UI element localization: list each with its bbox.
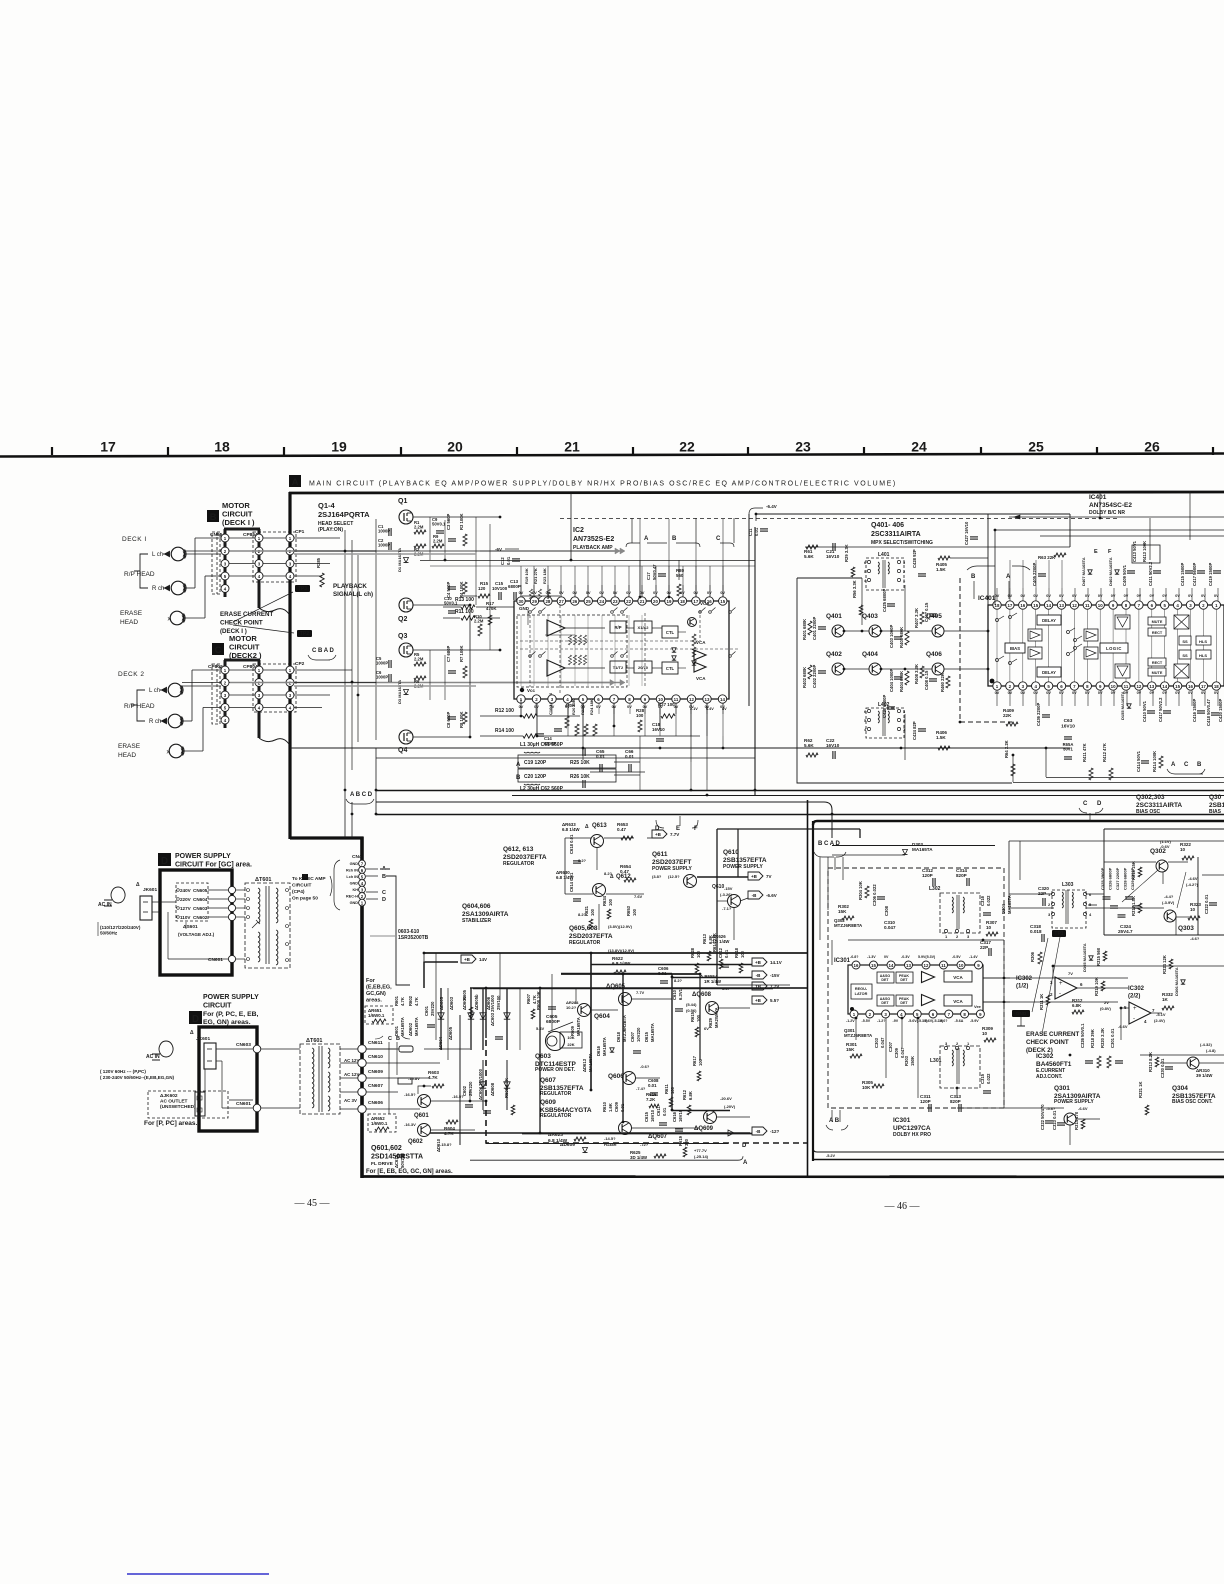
svg-text:100: 100 <box>740 950 745 958</box>
tag -B -12V <box>752 1127 767 1135</box>
bracket R/P head deck2 <box>131 690 145 721</box>
wires deck2 heads to connectors <box>182 682 221 684</box>
svg-text:REC-H: REC-H <box>346 895 358 899</box>
svg-text:R21 27K: R21 27K <box>533 568 538 584</box>
svg-text:(5.44): (5.44) <box>686 1002 697 1007</box>
svg-text:CN610: CN610 <box>368 1054 383 1060</box>
svg-text:5.9V(5.3V): 5.9V(5.3V) <box>918 955 936 959</box>
wire CN4 to page46 <box>386 876 410 985</box>
wires q304 <box>1140 1054 1224 1056</box>
svg-text:Vcc: Vcc <box>527 688 536 693</box>
transistor Q301 <box>1064 1113 1076 1125</box>
svg-text:R402 680K: R402 680K <box>802 667 807 688</box>
svg-text:Δ: Δ <box>190 1030 194 1036</box>
svg-text:0V: 0V <box>1072 594 1077 598</box>
svg-text:(-3.26): (-3.26) <box>720 892 732 897</box>
svg-text:C616: C616 <box>672 1111 677 1122</box>
svg-text:ΔJK602: ΔJK602 <box>160 1093 178 1099</box>
deck2 R-ch head <box>168 714 182 728</box>
svg-text:L302: L302 <box>929 886 941 892</box>
svg-text:CN4: CN4 <box>352 854 362 860</box>
svg-text:2SJ164PQRTA: 2SJ164PQRTA <box>318 510 370 519</box>
main circuit border bottom page45 <box>362 1175 1224 1178</box>
svg-text:17: 17 <box>100 439 116 455</box>
IC301 VCA lower <box>944 995 972 1006</box>
svg-text:CN604: CN604 <box>193 897 208 902</box>
svg-text:DELAY: DELAY <box>1042 670 1056 675</box>
tag +B 14.1V <box>752 958 767 966</box>
svg-text:Q301: Q301 <box>1054 1085 1070 1092</box>
svg-text:R403 680K: R403 680K <box>899 627 904 648</box>
op-amp IC301 box <box>848 965 983 1014</box>
diode D607 D608 lower <box>482 1060 484 1110</box>
svg-text:Q1-4: Q1-4 <box>318 501 336 510</box>
MPX wires <box>805 546 1070 548</box>
svg-text:-5.8?: -5.8? <box>1046 1106 1056 1111</box>
svg-text:D618: D618 <box>616 1031 621 1042</box>
transistor Q608 <box>706 1002 719 1015</box>
svg-text:21: 21 <box>564 439 580 455</box>
svg-text:CN601: CN601 <box>208 957 223 963</box>
svg-text:Q607: Q607 <box>540 1077 556 1084</box>
wires below IC401 <box>997 690 1218 706</box>
svg-text:0.047: 0.047 <box>884 925 896 930</box>
svg-text:R605: R605 <box>462 989 467 1000</box>
svg-text:C316: C316 <box>980 895 985 906</box>
svg-text:Q401- 406: Q401- 406 <box>871 522 904 529</box>
svg-text:C: C <box>388 1036 392 1042</box>
svg-text:REGULATOR: REGULATOR <box>540 1091 572 1097</box>
bold vertical c <box>671 974 673 1110</box>
wire bus y758 <box>376 757 755 759</box>
power supply P/PC label D <box>189 1011 202 1024</box>
svg-text:GND: GND <box>350 901 359 905</box>
test point TP1 <box>1052 930 1066 937</box>
deck2 L-ch head <box>168 683 182 697</box>
svg-text:Q604,606: Q604,606 <box>462 903 491 910</box>
svg-text:(2/2): (2/2) <box>1128 994 1140 1000</box>
svg-text:CN606: CN606 <box>368 1100 383 1106</box>
page46 box left <box>812 821 814 1161</box>
svg-text:-1.4V: -1.4V <box>969 955 978 959</box>
transistor Q601 <box>418 1095 431 1108</box>
svg-text:7.2K: 7.2K <box>646 1097 656 1102</box>
svg-text:CN609: CN609 <box>368 1069 383 1075</box>
svg-text:CIRCUIT: CIRCUIT <box>292 883 312 889</box>
svg-text:D3 MA165TA: D3 MA165TA <box>397 680 402 704</box>
svg-text:CN602: CN602 <box>193 915 208 920</box>
svg-text:C428 92P: C428 92P <box>912 549 917 568</box>
svg-text:0V: 0V <box>1175 594 1180 598</box>
bold frame right psu <box>773 987 807 989</box>
wires q610 <box>717 900 728 902</box>
wire bus y814 <box>376 814 1224 816</box>
svg-text:C308: C308 <box>884 905 889 916</box>
svg-text:C326 50V0.1: C326 50V0.1 <box>1080 1023 1085 1048</box>
svg-text:MPX SELECT/SWITCHING: MPX SELECT/SWITCHING <box>871 540 933 546</box>
svg-text:L401: L401 <box>878 552 890 558</box>
svg-text:0V: 0V <box>1149 594 1154 598</box>
filter box C19 R25 <box>518 755 616 768</box>
deck1 R-ch head <box>171 581 185 595</box>
svg-text:BA4560FT1: BA4560FT1 <box>1036 1061 1072 1068</box>
svg-text:POWER SUPPLY: POWER SUPPLY <box>1054 1099 1094 1105</box>
diode D605c <box>482 988 484 1050</box>
bold rail 14.1V <box>591 964 752 966</box>
svg-text:Q3: Q3 <box>398 633 407 640</box>
IC2 internal Vcc <box>520 688 524 692</box>
svg-text:K: K <box>303 874 307 880</box>
transformer L401 <box>864 552 906 590</box>
svg-text:(-4.32): (-4.32) <box>1200 1042 1212 1047</box>
capacitor bank C325-C329 <box>1100 867 1141 917</box>
D and A node arrows <box>720 1130 734 1136</box>
svg-text:CN605: CN605 <box>193 888 208 893</box>
svg-text:-4.4?: -4.4? <box>1164 894 1174 899</box>
IC401 X-box lower <box>1174 664 1189 678</box>
wires regulator row <box>565 837 591 839</box>
svg-text:120P: 120P <box>920 1099 931 1104</box>
svg-text:C330 0.01: C330 0.01 <box>1160 1058 1165 1078</box>
svg-text:26: 26 <box>572 599 577 604</box>
svg-text:ΔS601: ΔS601 <box>183 924 198 930</box>
tag TB 7.7V <box>752 982 767 990</box>
wires GC box <box>152 901 176 903</box>
svg-text:2SD2037EFT: 2SD2037EFT <box>652 859 691 866</box>
svg-text:22: 22 <box>679 439 695 455</box>
svg-text:0V: 0V <box>1162 691 1167 695</box>
svg-text:C425 6800P: C425 6800P <box>882 589 887 612</box>
svg-text:MA165TA: MA165TA <box>400 1017 405 1036</box>
svg-text:ΔD605b: ΔD605b <box>474 994 479 1010</box>
svg-text:Vee: Vee <box>974 1004 982 1009</box>
IC2 internal transistor <box>688 618 697 627</box>
wire cp1 to q1 <box>294 537 340 539</box>
IC2 internal wires solid <box>527 610 529 625</box>
svg-text:R23 18K: R23 18K <box>542 568 547 584</box>
svg-text:330: 330 <box>684 1138 689 1146</box>
svg-text:R304 10K: R304 10K <box>858 881 863 900</box>
op-amp IC2 AN7352S-E2 <box>514 527 729 699</box>
bold rail TB <box>473 988 773 990</box>
bold rail 1 <box>424 952 807 954</box>
dashed connector outlines deck1 <box>212 532 220 594</box>
svg-text:BIAS: BIAS <box>1010 646 1020 651</box>
svg-text:MTZJ6R8BTA: MTZJ6R8BTA <box>834 923 863 928</box>
svg-text:B: B <box>210 512 217 523</box>
svg-text:C411 50V2.2: C411 50V2.2 <box>1148 561 1153 586</box>
svg-text:R13 100: R13 100 <box>455 597 474 603</box>
svg-text:1000P: 1000P <box>378 543 390 548</box>
svg-text:20: 20 <box>447 439 463 455</box>
wires below IC2 <box>520 699 522 716</box>
svg-text:R407 3.3K: R407 3.3K <box>914 608 919 628</box>
bold q609 rail <box>672 1110 730 1112</box>
svg-text:C: C <box>215 645 222 656</box>
svg-text:0V: 0V <box>1188 691 1193 695</box>
svg-text:10: 10 <box>982 1031 988 1036</box>
svg-text:C8 680P: C8 680P <box>446 711 451 728</box>
svg-text:C: C <box>382 890 386 896</box>
IC301 dashed outer box <box>828 868 1004 1108</box>
svg-text:14.1V: 14.1V <box>770 960 782 965</box>
IC2 bottom pins <box>517 695 727 709</box>
svg-text:Q401: Q401 <box>826 613 842 620</box>
svg-text:TP2: TP2 <box>300 631 309 637</box>
svg-text:R609: R609 <box>570 1025 575 1036</box>
svg-text:IC401: IC401 <box>978 595 996 602</box>
svg-text:-9V: -9V <box>893 1019 899 1023</box>
svg-text:(2.4V): (2.4V) <box>1154 1018 1166 1023</box>
IC2 block X1/X2 <box>634 621 652 633</box>
svg-text:RECT: RECT <box>1152 631 1163 635</box>
motor circuit deck2 label C <box>212 643 224 655</box>
svg-text:ERASE: ERASE <box>118 743 141 750</box>
svg-text:0V: 0V <box>1149 691 1154 695</box>
svg-text:19: 19 <box>331 439 347 455</box>
svg-text:Q610: Q610 <box>723 849 739 856</box>
IC301 PEAK DET upper <box>896 972 913 983</box>
ruler ticks <box>52 447 1213 455</box>
svg-text:For [E, EB, EG, GC, GN] areas.: For [E, EB, EG, GC, GN] areas. <box>366 1169 453 1175</box>
IC401 RECT box upper <box>1148 628 1166 636</box>
svg-text:CN603: CN603 <box>193 906 208 911</box>
svg-text:25V4.7: 25V4.7 <box>1118 929 1133 934</box>
svg-text:2.2M: 2.2M <box>414 657 424 662</box>
tag -B -15V <box>752 971 767 979</box>
IC401 bottom pins <box>993 682 1221 695</box>
svg-text:On page 50: On page 50 <box>292 896 318 902</box>
wires q1 area verticals <box>429 517 431 560</box>
svg-text:2.2M: 2.2M <box>433 539 443 544</box>
svg-text:11: 11 <box>1124 684 1129 689</box>
svg-text:DOLBY B/C NR: DOLBY B/C NR <box>1089 510 1125 516</box>
svg-text:REGULATOR: REGULATOR <box>540 1113 572 1119</box>
svg-text:Q603: Q603 <box>535 1053 551 1060</box>
svg-text:GC,GN): GC,GN) <box>366 991 386 997</box>
wires bias osc <box>1009 840 1224 842</box>
svg-text:C416 1500P: C416 1500P <box>1192 699 1197 722</box>
wire arrows y517 <box>1009 516 1224 518</box>
transformer T601 top <box>245 877 290 968</box>
svg-text:(E,EB,EG,: (E,EB,EG, <box>366 985 392 991</box>
svg-text:C303: C303 <box>874 1037 879 1048</box>
diode D606 <box>506 988 508 1050</box>
svg-text:R602: R602 <box>408 995 413 1006</box>
svg-text:0V: 0V <box>559 591 564 595</box>
svg-text:C: C <box>1184 762 1189 768</box>
svg-text:R612: R612 <box>682 1089 687 1100</box>
svg-text:17: 17 <box>693 599 698 604</box>
wires above IC401 <box>997 588 1218 601</box>
svg-text:0V: 0V <box>1072 691 1077 695</box>
svg-text:R320 3.3K: R320 3.3K <box>1100 1028 1105 1048</box>
svg-text:6.8K: 6.8K <box>1072 1003 1082 1008</box>
svg-text:POWER ON DET.: POWER ON DET. <box>535 1067 576 1073</box>
svg-text:POWER SUPPLY: POWER SUPPLY <box>652 866 692 872</box>
svg-text:-5.6A: -5.6A <box>955 1019 964 1023</box>
svg-text:0V: 0V <box>1175 691 1180 695</box>
svg-text:C17: C17 <box>646 572 651 580</box>
main circuit border left lower <box>360 837 364 1179</box>
svg-text:-5.2V: -5.2V <box>826 1154 836 1158</box>
IC2 internal diodes <box>672 648 676 652</box>
svg-text:D407 MA165TA: D407 MA165TA <box>1081 557 1086 586</box>
IC301 top pins <box>852 961 983 969</box>
svg-text:A B C D: A B C D <box>350 792 373 798</box>
svg-text:0V: 0V <box>1137 691 1142 695</box>
svg-text:C408 0.15: C408 0.15 <box>924 670 929 690</box>
svg-text:5.5?: 5.5? <box>770 998 779 1003</box>
wire q303 emitter <box>1175 917 1177 935</box>
svg-text:IC301: IC301 <box>893 1117 911 1124</box>
signal arrow into amp <box>480 550 621 552</box>
svg-text:14: 14 <box>889 963 894 968</box>
IC401 block DELAY lower <box>1037 667 1061 677</box>
svg-text:-6.6V: -6.6V <box>1078 1106 1088 1111</box>
svg-text:100: 100 <box>636 713 644 718</box>
svg-text:6.8K: 6.8K <box>688 1091 693 1100</box>
svg-text:TP1: TP1 <box>1054 931 1063 937</box>
svg-text:16: 16 <box>1020 603 1025 608</box>
wire ic2 pin droppers <box>537 703 723 736</box>
bold rail 3 <box>470 987 807 989</box>
svg-text:For: For <box>366 978 376 984</box>
svg-text:C402 2200P: C402 2200P <box>812 665 817 688</box>
deck2 erase head <box>169 744 183 758</box>
svg-text:C309: C309 <box>894 1047 899 1058</box>
svg-text:PLAYBACK: PLAYBACK <box>333 583 367 590</box>
svg-text:B: B <box>971 574 976 580</box>
svg-text:ΔD608: ΔD608 <box>490 1082 495 1096</box>
IC401 block LOGIC <box>1100 643 1128 653</box>
resistor R5 <box>414 662 426 666</box>
svg-text:50V1: 50V1 <box>1063 747 1073 752</box>
svg-text:SS: SS <box>1182 653 1188 658</box>
signal arrow deck1 <box>230 550 616 552</box>
svg-text:127V: 127V <box>180 906 192 911</box>
svg-text:11: 11 <box>1085 603 1090 608</box>
svg-text:B: B <box>672 536 677 542</box>
svg-text:Q302,303: Q302,303 <box>1136 794 1165 801</box>
wire vca outputs right <box>983 977 1128 979</box>
wire y530 y536 <box>995 530 1224 605</box>
svg-text:A: A <box>1171 762 1176 768</box>
svg-text:0V: 0V <box>1098 594 1103 598</box>
svg-text:2SD1450RSTTA: 2SD1450RSTTA <box>371 1154 423 1161</box>
IC401 MUTE box lower <box>1148 668 1166 676</box>
svg-text:C404 1000P: C404 1000P <box>889 669 894 692</box>
wire riser x756 bus <box>755 514 757 521</box>
IC401 HLS box lower <box>1196 650 1211 659</box>
signal arrow deck2 <box>230 682 611 684</box>
svg-text:R324 12K: R324 12K <box>1162 955 1167 974</box>
svg-text:D1 MA165TA: D1 MA165TA <box>397 548 402 572</box>
svg-text:7V: 7V <box>766 874 772 879</box>
svg-text:Q406: Q406 <box>926 651 942 658</box>
svg-text:25V220: 25V220 <box>468 1081 473 1096</box>
svg-text:AN7354SC-E2: AN7354SC-E2 <box>1089 502 1132 509</box>
fuse symbols right of CN <box>399 1046 413 1052</box>
svg-text:ERASE CURRENT: ERASE CURRENT <box>220 611 274 618</box>
svg-text:X1/X2: X1/X2 <box>638 625 650 630</box>
IC2 block CTL upper <box>662 626 678 638</box>
transistor Q302 <box>1156 860 1168 872</box>
svg-text:R460 22K: R460 22K <box>940 673 945 692</box>
svg-text:R ch: R ch <box>152 586 164 592</box>
plug JK601 bottom <box>159 1041 173 1057</box>
svg-text:0.47: 0.47 <box>620 869 629 874</box>
svg-text:PLAYBACK AMP: PLAYBACK AMP <box>573 545 613 551</box>
svg-text:25: 25 <box>1028 439 1044 455</box>
svg-text:Q611: Q611 <box>652 851 668 858</box>
svg-text:-7.1?: -7.1? <box>722 906 732 911</box>
wires deck1 heads to connectors <box>185 550 221 552</box>
svg-text:-14.5?: -14.5? <box>604 1136 616 1141</box>
svg-text:CP1: CP1 <box>295 529 305 535</box>
node bracket B C A D <box>814 841 846 940</box>
svg-text:BIAS OSC CONT.: BIAS OSC CONT. <box>1172 1099 1213 1105</box>
svg-text:CN601: CN601 <box>236 1101 251 1107</box>
svg-text:AC IN: AC IN <box>98 902 112 908</box>
wires q301 <box>1000 1107 1064 1109</box>
svg-text:-5.9V: -5.9V <box>970 1019 979 1023</box>
IC401 RECT box lower <box>1148 658 1166 666</box>
svg-text:C618 0.01: C618 0.01 <box>569 834 574 854</box>
svg-text:6800P: 6800P <box>544 741 556 746</box>
connector CP1 pins <box>286 534 294 580</box>
bold rail 2 <box>561 973 700 975</box>
transformer L302 <box>929 886 980 939</box>
svg-text:C322 0.01: C322 0.01 <box>1204 894 1209 914</box>
capacitor C6 <box>388 674 390 682</box>
svg-text:-0.3V: -0.3V <box>901 955 910 959</box>
svg-text:MA165TA: MA165TA <box>588 1053 593 1072</box>
svg-text:R56 3.3K: R56 3.3K <box>852 580 857 598</box>
svg-text:B: B <box>516 775 521 781</box>
svg-text:Q609: Q609 <box>540 1099 556 1106</box>
svg-text:20: 20 <box>653 599 658 604</box>
svg-text:-20.6V: -20.6V <box>720 1096 732 1101</box>
IC401 X-box upper <box>1174 615 1189 629</box>
transformer L303 <box>1048 882 1092 928</box>
connector pin CN601 <box>228 955 235 962</box>
svg-text:10: 10 <box>1180 847 1186 852</box>
svg-text:C327 2200P: C327 2200P <box>1115 867 1120 890</box>
svg-text:0V: 0V <box>1214 594 1219 598</box>
svg-text:0.01: 0.01 <box>648 1083 657 1088</box>
svg-text:15: 15 <box>1033 603 1038 608</box>
svg-text:0.01: 0.01 <box>620 1103 625 1112</box>
svg-text:-5.6?: -5.6? <box>939 1019 947 1023</box>
svg-text:Q613: Q613 <box>592 823 607 829</box>
svg-text:C414 50V1: C414 50V1 <box>1136 750 1141 772</box>
svg-text:AC IN: AC IN <box>146 1054 160 1060</box>
svg-text:R613: R613 <box>702 933 707 944</box>
bold vertical b <box>622 974 624 1122</box>
svg-text:-5.5V: -5.5V <box>862 1019 871 1023</box>
svg-text:DET: DET <box>881 1001 889 1005</box>
svg-text:R321 1K: R321 1K <box>1138 1081 1143 1098</box>
svg-text:STABILIZER: STABILIZER <box>462 918 491 924</box>
wire vertical at x571 <box>570 493 572 560</box>
svg-text:C407 0.15: C407 0.15 <box>924 602 929 622</box>
svg-text:R610: R610 <box>602 1101 607 1112</box>
svg-text:13: 13 <box>906 963 911 968</box>
svg-text:For [P, PC] areas.: For [P, PC] areas. <box>144 1120 198 1127</box>
svg-text:ΔC604 25V1000: ΔC604 25V1000 <box>478 1068 483 1100</box>
svg-text:MUTE: MUTE <box>1152 671 1163 675</box>
